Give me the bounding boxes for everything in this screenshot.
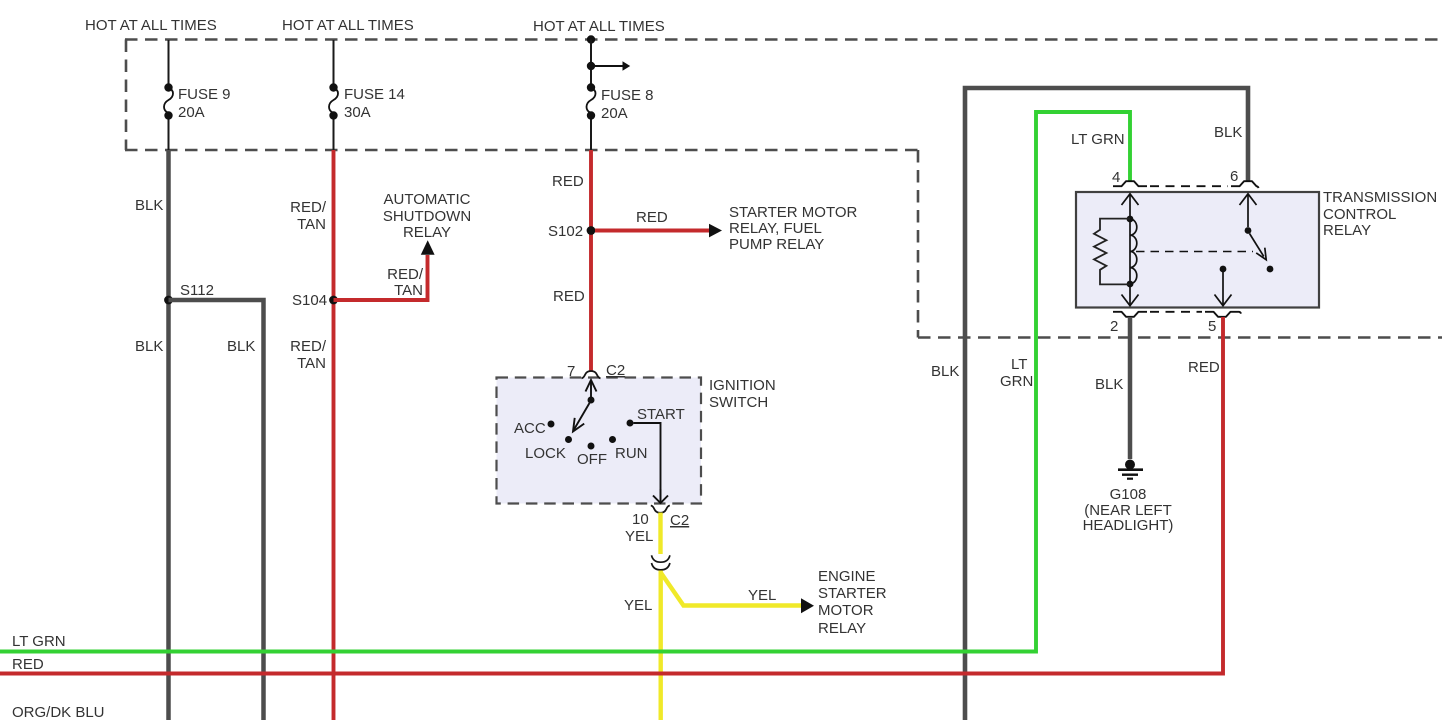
- svg-text:10: 10: [632, 511, 649, 528]
- wire fuse9 feed: [168, 40, 170, 150]
- node on bus for fuse8: [587, 35, 595, 43]
- arrow down pin 5: [1215, 295, 1232, 306]
- switch lever toward LOCK: [574, 403, 590, 430]
- wire YEL from pin 10: [658, 513, 662, 555]
- svg-text:START: START: [637, 406, 685, 423]
- wire RED pin5 down and across: [0, 317, 1223, 674]
- svg-text:30A: 30A: [344, 104, 371, 121]
- svg-text:SHUTDOWN: SHUTDOWN: [383, 208, 471, 225]
- svg-text:YEL: YEL: [624, 597, 652, 614]
- fusebox dashed boundary left: [125, 40, 128, 151]
- wire RED branch to starter motor relay: [595, 229, 709, 233]
- svg-text:G108: G108: [1110, 486, 1147, 503]
- svg-text:S102: S102: [548, 223, 583, 240]
- ground G108: [1125, 460, 1135, 470]
- arrow up into pin 7: [586, 380, 597, 392]
- wire RED/TAN branch to ASD relay: [334, 255, 428, 300]
- arrow down pin 2: [1122, 295, 1139, 306]
- node S102: [587, 226, 596, 235]
- svg-text:ENGINE: ENGINE: [818, 568, 876, 585]
- switch pivot dot: [1245, 227, 1252, 234]
- svg-text:S112: S112: [180, 282, 214, 299]
- arrow to automatic shutdown relay: [421, 240, 435, 255]
- svg-text:RED: RED: [12, 656, 44, 673]
- wire YEL below connector: [659, 571, 663, 720]
- svg-text:BLK: BLK: [1214, 124, 1242, 141]
- switch arm: [1250, 234, 1264, 257]
- ignition switch box: [497, 378, 702, 504]
- transmission control relay box: [1076, 192, 1319, 308]
- svg-text:LT GRN: LT GRN: [12, 633, 66, 650]
- pin 5 connector bump: [1205, 312, 1241, 317]
- wire YEL branch to engine starter relay: [661, 573, 801, 606]
- contact dot ACC: [548, 421, 555, 428]
- wire from START to pin 10: [634, 423, 661, 500]
- svg-text:RELAY: RELAY: [403, 224, 451, 241]
- contact dot RUN: [609, 436, 616, 443]
- svg-text:LT GRN: LT GRN: [1071, 131, 1125, 148]
- coil node top: [1127, 216, 1134, 223]
- svg-text:BLK: BLK: [227, 338, 255, 355]
- wire fuse14 feed: [333, 40, 335, 150]
- svg-text:BLK: BLK: [1095, 376, 1123, 393]
- svg-text:RELAY, FUEL: RELAY, FUEL: [729, 220, 822, 237]
- svg-text:20A: 20A: [601, 105, 628, 122]
- fusebox dashed boundary top: [125, 38, 1442, 41]
- svg-text:OFF: OFF: [577, 451, 607, 468]
- svg-text:HOT AT ALL TIMES: HOT AT ALL TIMES: [533, 18, 665, 35]
- fuse F14 symbol: [329, 83, 337, 91]
- wire RED from fuse8 down: [589, 150, 593, 372]
- svg-text:HOT AT ALL TIMES: HOT AT ALL TIMES: [85, 17, 217, 34]
- node S112: [164, 296, 173, 305]
- contact dot OFF: [588, 443, 595, 450]
- svg-text:RUN: RUN: [615, 445, 648, 462]
- contact dot START: [627, 420, 634, 427]
- PDC dashed boundary lower horizontal: [918, 336, 1442, 339]
- pin5 contact dot: [1220, 266, 1227, 273]
- svg-text:RED: RED: [553, 288, 585, 305]
- pin5 vertical: [1222, 272, 1224, 306]
- wire BLK top right: [965, 88, 1248, 720]
- branch node above fuse8: [587, 62, 595, 70]
- svg-text:HEADLIGHT): HEADLIGHT): [1083, 517, 1174, 534]
- svg-text:20A: 20A: [178, 104, 205, 121]
- dashed connector line top: [1150, 185, 1228, 187]
- svg-text:RED/: RED/: [290, 338, 327, 355]
- svg-text:CONTROL: CONTROL: [1323, 206, 1396, 223]
- pin 2 connector bump: [1113, 312, 1147, 317]
- arrow down to pin 10: [653, 496, 668, 504]
- pin 10 connector bump: [651, 506, 670, 513]
- svg-text:RELAY: RELAY: [818, 620, 866, 637]
- pin 4 connector bump: [1113, 181, 1147, 186]
- resistor R parallel: [1094, 219, 1130, 285]
- coil windings: [1130, 219, 1137, 284]
- svg-text:LOCK: LOCK: [525, 445, 566, 462]
- svg-text:BLK: BLK: [135, 197, 163, 214]
- pin 7 connector bump: [582, 371, 601, 378]
- svg-text:STARTER MOTOR: STARTER MOTOR: [729, 204, 858, 221]
- wire RED/TAN from fuse14 down: [332, 150, 336, 720]
- svg-text:IGNITION: IGNITION: [709, 377, 776, 394]
- coil node bottom: [1127, 281, 1134, 288]
- switch pivot dot: [588, 397, 595, 404]
- svg-text:PUMP RELAY: PUMP RELAY: [729, 236, 824, 253]
- wire BLK pin2 to ground: [1128, 317, 1133, 459]
- dashed connector line bottom: [1150, 311, 1202, 313]
- svg-text:RELAY: RELAY: [1323, 222, 1371, 239]
- svg-text:GRN: GRN: [1000, 373, 1033, 390]
- svg-text:BLK: BLK: [135, 338, 163, 355]
- svg-text:LT: LT: [1011, 356, 1027, 373]
- fuse F9 symbol: [164, 83, 172, 91]
- inline connector C2 halves: [652, 555, 670, 562]
- switch pin6 vertical: [1247, 195, 1249, 228]
- svg-text:C2: C2: [606, 362, 625, 379]
- svg-text:SWITCH: SWITCH: [709, 394, 768, 411]
- svg-text:ORG/DK BLU: ORG/DK BLU: [12, 704, 105, 720]
- pin 6 connector bump: [1231, 181, 1259, 188]
- svg-text:AUTOMATIC: AUTOMATIC: [384, 191, 471, 208]
- wire fuse8 feed: [590, 40, 592, 151]
- svg-text:RED: RED: [552, 173, 584, 190]
- svg-text:5: 5: [1208, 318, 1216, 335]
- svg-text:4: 4: [1112, 169, 1120, 186]
- svg-text:C2: C2: [670, 512, 689, 529]
- PDC dashed boundary right vertical: [917, 150, 920, 338]
- arrow up pin 4: [1122, 194, 1139, 205]
- svg-text:2: 2: [1110, 318, 1118, 335]
- svg-text:FUSE 8: FUSE 8: [601, 87, 654, 104]
- node S104: [329, 296, 338, 305]
- svg-text:TRANSMISSION: TRANSMISSION: [1323, 189, 1437, 206]
- arrow to starter motor relay: [709, 224, 722, 238]
- svg-text:RED: RED: [636, 209, 668, 226]
- switch contact dot: [1267, 266, 1274, 273]
- dashed actuation line: [1136, 251, 1253, 253]
- branch arrow right of fuse8: [594, 65, 623, 67]
- svg-text:RED/: RED/: [290, 199, 327, 216]
- wire LT GRN top: [0, 112, 1130, 652]
- svg-text:TAN: TAN: [394, 282, 423, 299]
- svg-text:BLK: BLK: [931, 363, 959, 380]
- svg-text:YEL: YEL: [748, 587, 776, 604]
- svg-text:RED/: RED/: [387, 266, 424, 283]
- svg-text:S104: S104: [292, 292, 327, 309]
- svg-text:ACC: ACC: [514, 420, 546, 437]
- svg-text:HOT AT ALL TIMES: HOT AT ALL TIMES: [282, 17, 414, 34]
- svg-text:RED: RED: [1188, 359, 1220, 376]
- svg-text:STARTER: STARTER: [818, 585, 887, 602]
- svg-text:FUSE 9: FUSE 9: [178, 86, 231, 103]
- svg-text:TAN: TAN: [297, 216, 326, 233]
- svg-text:FUSE 14: FUSE 14: [344, 86, 405, 103]
- relay coil branch pin4 vertical: [1129, 195, 1131, 306]
- svg-text:TAN: TAN: [297, 355, 326, 372]
- svg-text:6: 6: [1230, 168, 1238, 185]
- svg-text:7: 7: [567, 363, 575, 380]
- svg-text:MOTOR: MOTOR: [818, 602, 874, 619]
- wire BLK from fuse9 down: [166, 150, 171, 720]
- arrow to engine starter motor relay: [801, 598, 814, 613]
- wire BLK branch from S112: [169, 300, 264, 720]
- fusebox dashed boundary bottom: [125, 149, 918, 152]
- fuse F8 symbol: [587, 83, 595, 91]
- svg-text:YEL: YEL: [625, 528, 653, 545]
- arrow up pin 6: [1240, 194, 1257, 205]
- contact dot LOCK: [565, 436, 572, 443]
